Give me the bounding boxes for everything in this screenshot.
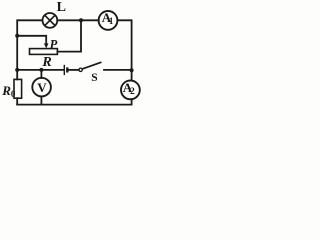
wire top-left: left corner to lamp [17, 20, 42, 36]
lamp L [43, 13, 58, 28]
wire left: bottom corner up to R0 [16, 98, 18, 104]
wire right bottom: A2 to bottom-right corner [17, 99, 131, 104]
wire top: lamp to A1 [57, 19, 98, 21]
svg-text:S: S [91, 72, 97, 84]
wire voltmeter top stub [40, 70, 42, 78]
wire row2: junction to wiper drop [17, 36, 46, 44]
wire row3: switch fixed contact to right wire [104, 69, 132, 71]
node left-row2 [15, 34, 19, 38]
ammeter A1 [99, 11, 118, 30]
svg-text:L: L [57, 0, 66, 15]
wire row3: left junction to voltmeter tap to battery [17, 69, 63, 71]
svg-text:V: V [37, 80, 47, 95]
ammeter A2 [121, 81, 140, 100]
svg-text:2: 2 [130, 87, 135, 97]
svg-text:1: 1 [109, 16, 114, 26]
wire right: junction to A2 [131, 70, 133, 80]
wire top: A1 to top-right corner, down right side [117, 20, 131, 70]
wire row3: battery to switch pivot [68, 69, 79, 71]
switch S [79, 62, 102, 71]
voltmeter V [32, 78, 51, 97]
wire voltmeter bottom stub [40, 96, 42, 104]
svg-text:P: P [50, 37, 58, 51]
wire left: row3 junction to row2 junction [16, 36, 18, 70]
rheostat R [30, 49, 58, 55]
svg-text:R: R [41, 55, 51, 70]
node top rheostat branch [79, 18, 83, 22]
wire rheostat right terminal to riser [57, 20, 81, 51]
wire left: R0 to row3 junction [16, 70, 18, 80]
node left-row3 [15, 68, 19, 72]
node voltmeter tap [39, 68, 43, 72]
node right-row3 [130, 68, 134, 72]
wiper arrow P [44, 43, 49, 48]
battery [64, 65, 67, 75]
resistor R0 [14, 79, 22, 98]
